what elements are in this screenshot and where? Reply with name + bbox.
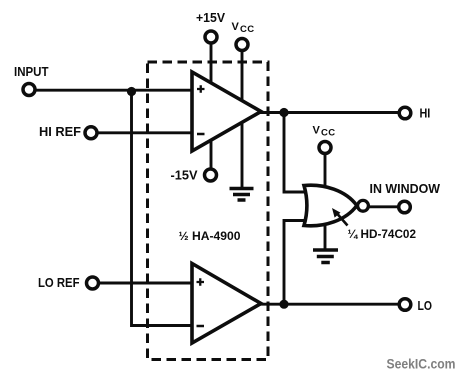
terminal LO REF	[87, 277, 99, 289]
svg-text:SeekIC.com: SeekIC.com	[387, 357, 456, 373]
terminal IN WINDOW	[399, 201, 411, 213]
terminal VCC (U1)	[236, 39, 248, 51]
ground (U3 ground pin)	[313, 250, 338, 263]
op-amp U2 (½ HA-4900 section B)	[192, 264, 261, 344]
wire LO junction up to NOR gate input B	[284, 221, 308, 305]
svg-text:IN WINDOW: IN WINDOW	[370, 182, 441, 196]
svg-text:LO: LO	[418, 299, 433, 313]
svg-text:HI: HI	[420, 107, 431, 121]
terminal -15V	[205, 169, 217, 181]
terminal LO	[399, 299, 411, 311]
wire U1 output to HI terminal	[259, 111, 400, 114]
node LO junction	[279, 300, 288, 309]
terminal HI REF	[85, 127, 97, 139]
U2 plus sign	[197, 278, 205, 286]
svg-text:INPUT: INPUT	[14, 65, 49, 79]
wire bubble to IN WINDOW terminal	[369, 205, 400, 208]
wire INPUT to U1 noninverting input	[33, 89, 194, 92]
wire +15V supply through U1 to -15V	[210, 42, 213, 170]
U1 plus sign	[197, 85, 205, 93]
terminal VCC (U3)	[319, 142, 331, 154]
svg-text:LO REF: LO REF	[38, 276, 80, 290]
wire HI junction down to NOR gate input A	[284, 113, 308, 193]
svg-text:CC: CC	[321, 128, 336, 139]
ground (U1 ground pin)	[230, 189, 254, 201]
wire VCC through U1 down to ground	[241, 50, 244, 189]
node HI junction	[279, 108, 288, 117]
dashed box ½ HA-4900	[148, 62, 269, 360]
op-amp U1 (½ HA-4900 section A)	[192, 72, 261, 151]
wire LO REF to U2 noninverting input	[97, 282, 194, 285]
U1 minus sign	[197, 133, 205, 136]
svg-text:+15V: +15V	[196, 11, 226, 25]
terminal HI	[399, 107, 411, 119]
terminal +15V	[205, 31, 217, 43]
arrow pointing to U3	[337, 214, 348, 226]
wire VCC to NOR gate top	[324, 153, 327, 187]
node A input junction	[127, 87, 136, 96]
wire input junction down to U2 inverting input	[132, 90, 195, 325]
svg-text:½ HA-4900: ½ HA-4900	[179, 229, 241, 243]
U2 minus sign	[197, 325, 205, 328]
wire NOR gate bottom to ground	[324, 224, 327, 250]
wire HI REF to U1 inverting input	[96, 131, 194, 134]
svg-text:CC: CC	[240, 24, 255, 35]
NOR gate U3 (¼ HD-74C02)	[304, 185, 357, 226]
svg-text:V: V	[232, 21, 240, 33]
svg-text:HI REF: HI REF	[39, 125, 81, 139]
wire U2 output to LO terminal	[259, 303, 400, 306]
U3 output inversion bubble	[358, 200, 369, 211]
svg-text:V: V	[313, 125, 321, 137]
svg-text:-15V: -15V	[171, 169, 199, 183]
svg-text:¼ HD-74C02: ¼ HD-74C02	[348, 227, 417, 241]
terminal INPUT	[23, 84, 35, 96]
